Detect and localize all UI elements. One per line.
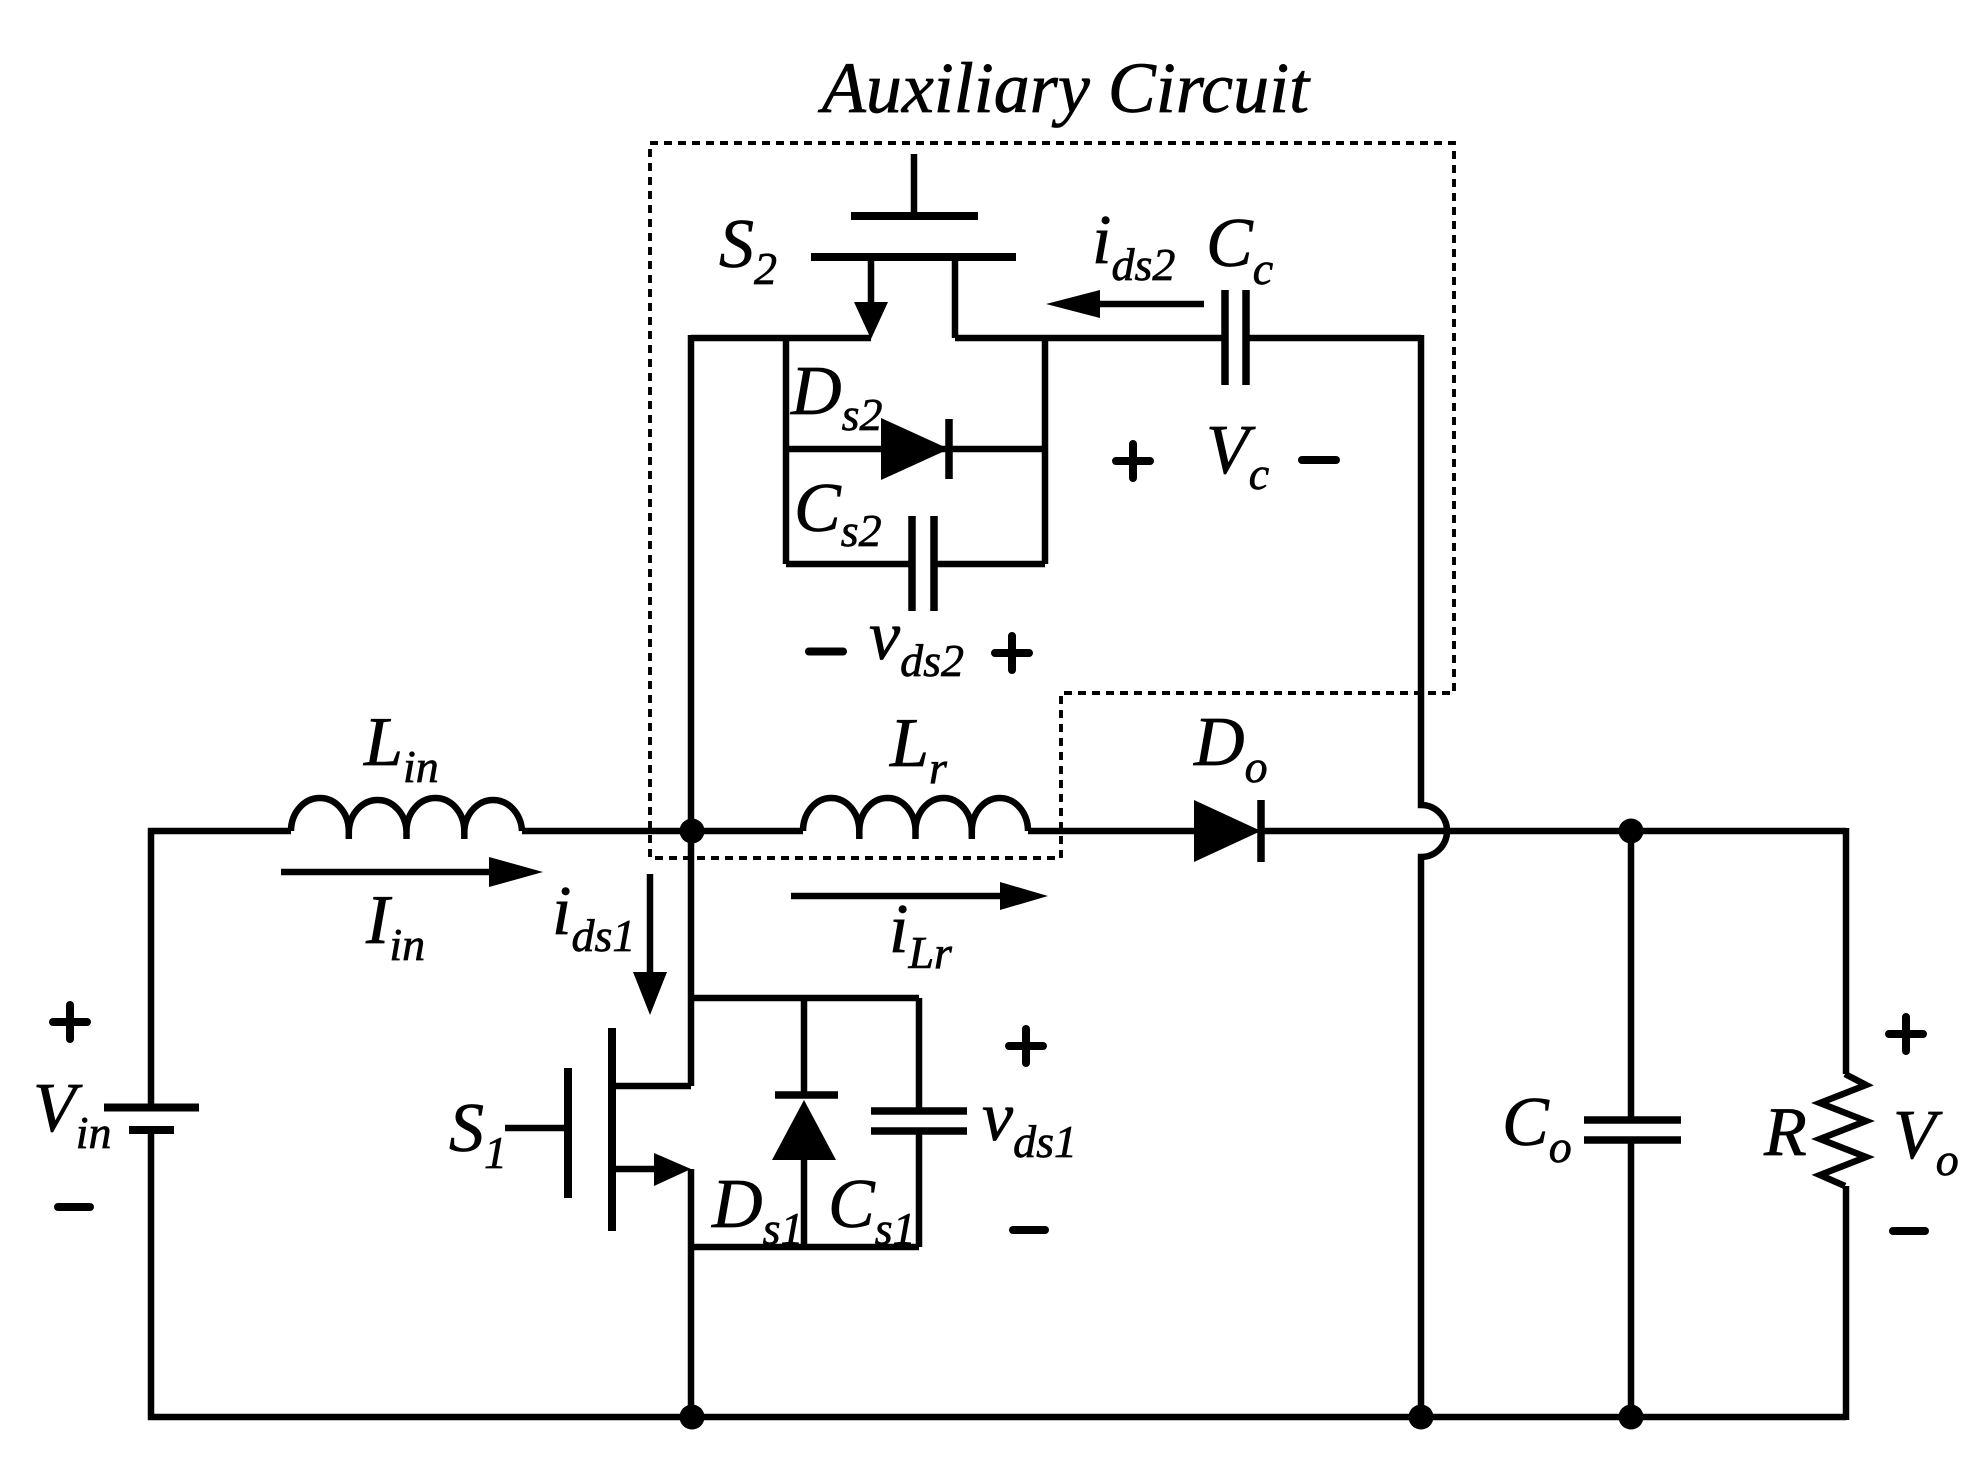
label vds2 with polarity	[809, 598, 1029, 686]
arrow Iin	[281, 857, 543, 887]
wire: S2 source to Cc	[955, 335, 1225, 342]
node: bottom Co junction	[1619, 1405, 1644, 1430]
wire: bottom bus	[148, 1414, 1846, 1421]
MOSFET S2	[811, 154, 1016, 339]
wire: right rail lower	[1843, 1186, 1850, 1420]
capacitor Cs2	[912, 516, 934, 611]
capacitor Cc	[1225, 290, 1246, 385]
inductor Lin	[291, 798, 522, 831]
wire: Cc to corner	[1246, 335, 1421, 342]
dashed auxiliary-circuit boundary	[650, 143, 1454, 858]
wire: S1 branch vertical (node to drain tap)	[688, 831, 695, 1086]
inductor Lr	[803, 798, 1028, 831]
inductor Lin junction ticks	[349, 831, 465, 839]
label vds1 with polarity	[982, 1029, 1077, 1230]
wire: left rail with Vin	[148, 828, 155, 1420]
wire: bus from Lr to Do	[1028, 828, 1194, 835]
label Vin with polarity	[33, 1005, 112, 1207]
wire: S2 drain horizontal	[691, 335, 871, 342]
body diode Ds2 / capacitor Cs2 box	[786, 338, 1045, 564]
arrow ids2	[1046, 290, 1204, 318]
diode Do	[1194, 800, 1261, 862]
arrow ids1	[633, 874, 667, 1015]
wire: bus from Do to right corner	[1258, 828, 1846, 835]
inductor Lr junction ticks	[859, 831, 972, 839]
MOSFET S1	[505, 1028, 691, 1231]
wire: bus from Lin to Lr	[522, 828, 803, 835]
svg-text:Auxiliary Circuit: Auxiliary Circuit	[818, 48, 1311, 128]
body diode Ds1 / capacitor Cs1 box	[691, 998, 919, 1247]
node: bus-Co junction	[1619, 819, 1644, 844]
capacitor Co	[1584, 831, 1681, 1420]
node: main node at S1/S2/Lr junction	[680, 819, 705, 844]
node: bottom Cc junction	[1409, 1405, 1434, 1430]
resistor R	[1820, 1074, 1866, 1186]
label Vo with polarity	[1889, 1017, 1959, 1231]
label Vc with polarity	[1116, 412, 1336, 499]
wire: S2 drain vertical from top wire to main node	[688, 335, 695, 831]
diode Ds1	[772, 998, 838, 1247]
wire: right rail upper	[1843, 828, 1850, 1074]
wire: top bus left segment	[148, 828, 291, 835]
arrow iLr	[791, 882, 1048, 910]
diode Ds2	[881, 418, 949, 480]
wire: vertical from Cc corner down with hop over bus	[1421, 335, 1447, 1420]
wire: S1 source vertical to bottom bus	[688, 1169, 695, 1420]
svg-text:R: R	[1763, 1094, 1807, 1171]
node: bottom S1 junction	[680, 1405, 705, 1430]
capacitor Cs1	[871, 1111, 967, 1131]
battery Vin	[104, 1108, 199, 1131]
